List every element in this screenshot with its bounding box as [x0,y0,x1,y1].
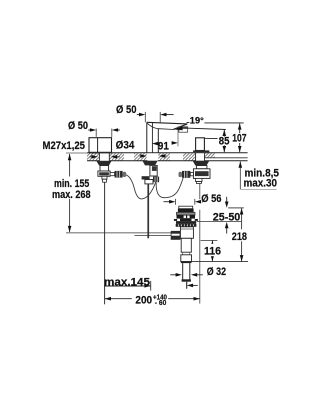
svg-text:200: 200 [135,295,152,307]
left valve cartridge block [98,171,110,176]
svg-text:Ø 50: Ø 50 [68,120,88,132]
svg-text:19°: 19° [190,115,204,125]
left handle shank through deck [99,153,109,161]
angle annotation 19 degrees [174,115,243,130]
label M27x1,25 with leader [43,140,86,152]
deck top surface line [87,152,248,154]
countertop deck hatched section right of left-handle shank [110,153,125,161]
drain flange mid ring [177,212,196,215]
pop-up waste drain plug flat cap [179,206,193,209]
right flexible hose loop from right valve to spout tee [156,177,183,197]
spout tee left arm [142,176,150,179]
svg-text:- 60: - 60 [155,298,167,307]
countertop deck hatched section right of spout shank [158,153,170,161]
right handle top extension line [204,137,217,139]
drain coupling nut [181,255,192,263]
pop-up rod clevis at drain [171,231,181,240]
left valve side outlet end cap [123,172,127,177]
countertop deck hatched section left of spout shank [134,153,147,161]
svg-text:Ø34: Ø34 [116,139,136,151]
svg-text:max. 268: max. 268 [52,189,91,201]
spout tee right port fitting [153,177,159,183]
dimension 91 (spout projection) [152,126,178,152]
spout underside to aerator [158,128,174,131]
svg-text:Ø 32: Ø 32 [207,266,226,278]
spout threaded shank below deck [150,165,157,176]
drain upper body [180,227,193,239]
right valve supply axis extension upper segment [199,183,201,199]
svg-text:Ø 50: Ø 50 [116,104,137,116]
drain neck with side lugs [174,219,198,222]
pop-up horizontal link rod upper line [66,232,176,234]
dimension 85 (outlet height) [218,130,230,153]
dimension Ø34 (left valve shank) [90,139,136,158]
deck bottom line (max thickness) [87,160,248,162]
spout tip end face [173,124,187,129]
countertop deck thin hatched section right of right-handle shank [205,153,215,158]
svg-text:107: 107 [232,133,246,145]
left valve lower tail piece [102,176,107,182]
drain locknut top band [176,221,196,224]
svg-text:218: 218 [232,231,247,243]
spout mounting nut below deck [143,161,158,165]
left valve side outlet neck [110,172,115,175]
left supply pipe (200 dimension left extension) [104,182,106,304]
left flexible hose from left valve to spout tee [126,175,156,199]
spout inner profile curve [147,123,158,128]
right handle knob [196,138,205,151]
right handle base plate on deck [193,150,209,152]
spout shank width arrows at deck [140,154,167,158]
countertop deck hatched section left of left-handle shank [87,153,99,161]
spout shank white gap through deck [147,153,157,160]
dimension max.145 (rod to drain) [104,277,198,291]
dimension min.155 max.268 (supply length) [51,154,93,232]
spout tee body [145,180,153,184]
right handle shank through deck [196,153,205,161]
pop-up lift rod vertical [147,184,149,238]
dimension 218 (drain total height) [230,208,252,261]
drain axis extension for max.145 [186,282,188,289]
svg-text:max.30: max.30 [244,178,278,190]
right valve upper stem [196,166,207,169]
dimension Ø32 (tailpipe diameter) [170,262,248,278]
svg-text:85: 85 [219,136,230,148]
svg-text:116: 116 [204,246,221,258]
drain tailpipe [183,263,190,281]
spout column left edge [146,122,148,153]
right valve supply axis extension lower segment (200 dimension right extension) [199,210,201,304]
right valve lower tail piece [196,178,202,183]
pop-up horizontal link rod lower line [135,234,176,236]
svg-text:25-50: 25-50 [213,212,241,224]
drain locknut threaded band [176,224,197,227]
drain mid body pipe [181,238,191,252]
min.155 top reference line at deck level [66,152,88,154]
left valve upper body [100,166,109,172]
svg-text:M27x1,25: M27x1,25 [43,140,86,152]
svg-text:91: 91 [158,140,169,152]
drain pipe edges through joint [183,252,190,255]
dimension Ø50 top (spout) [116,104,174,123]
dimension 116 (tailpipe length) [201,240,223,261]
deck intermediate bottom line (min thickness, right side) [205,157,248,159]
drain flange block with windows [177,215,196,219]
dimension Ø50 left (handle) [68,120,120,137]
right valve mounting nut below deck [193,161,209,166]
svg-text:Ø 56: Ø 56 [201,193,221,205]
left handle body [89,138,112,153]
dimension Ø56 (drain flange) [164,193,222,205]
dimension 107 (spout top height) [232,123,248,152]
spout column right edge [157,129,159,153]
left valve mounting nut below deck [96,161,111,166]
aerator body [179,127,188,132]
dimension 25-50 (basin clamp range) [197,197,244,234]
spout top edge [147,122,188,124]
right valve side outlet neck [190,172,193,175]
dimension 200 +140/-60 (hole spacing) [105,292,200,307]
drain tailpipe end band [182,279,191,281]
left handle base plate on deck [89,152,112,154]
annotation min.8,5 max.30 (deck thickness) [239,161,280,189]
right valve side outlet compression nut [182,171,190,178]
right valve side outlet end cap [179,172,183,177]
spout column inner line [151,123,153,153]
svg-text:max.145: max.145 [104,277,150,289]
left valve side outlet compression nut [115,171,123,178]
drain plug dark band [178,209,194,213]
right valve body [193,169,210,179]
countertop deck hatched section left of right-handle shank [183,153,196,161]
